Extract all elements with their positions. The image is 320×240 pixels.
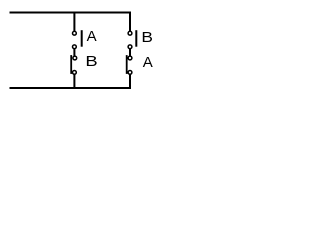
- contact A terminal 1 (right branch third circle): [128, 56, 132, 60]
- svg-text:B: B: [141, 29, 153, 46]
- svg-text:B: B: [85, 53, 97, 70]
- wire: right branch lower stem: [129, 72, 131, 88]
- wire: bottom rail: [10, 87, 132, 89]
- contact B terminal 1 (right branch top circle): [128, 31, 132, 35]
- wire: top rail: [10, 12, 132, 14]
- contact B terminal 2 (left branch bottom circle): [73, 71, 77, 75]
- contact B terminal 2 (right branch second circle): [128, 45, 132, 49]
- contact A terminal 1 (left branch top circle): [73, 31, 77, 35]
- wire: left branch lower stem: [73, 72, 75, 88]
- contact A blade (left branch, make contact bar): [81, 30, 83, 47]
- wire: right branch upper stem: [129, 13, 131, 34]
- wire: left branch upper stem: [73, 13, 75, 34]
- wire: right branch middle stem: [129, 47, 131, 58]
- wire: left branch middle stem: [73, 47, 75, 58]
- contact A blade (right branch, break contact bar): [126, 55, 128, 74]
- contact B blade (right branch, make contact bar): [135, 30, 137, 47]
- contact B terminal 1 (left branch third circle): [73, 56, 77, 60]
- svg-text:A: A: [143, 54, 153, 71]
- svg-text:A: A: [87, 28, 97, 45]
- contact B blade (left branch, break contact bar): [70, 55, 72, 74]
- contact A terminal 2 (left branch second circle): [73, 45, 77, 49]
- contact A terminal 2 (right branch bottom circle): [128, 71, 132, 75]
